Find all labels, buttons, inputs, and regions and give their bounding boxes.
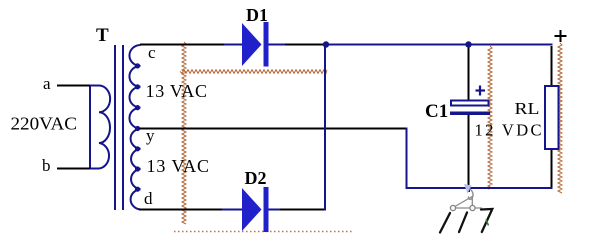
svg-text:13 VAC: 13 VAC — [147, 156, 210, 176]
svg-text:D2: D2 — [245, 168, 267, 188]
svg-text:220VAC: 220VAC — [11, 114, 78, 134]
svg-text:D1: D1 — [246, 5, 268, 25]
svg-text:RL: RL — [515, 99, 540, 118]
svg-text:b: b — [42, 156, 51, 175]
svg-text:c: c — [148, 43, 156, 62]
svg-text:a: a — [43, 74, 51, 93]
svg-text:13 VAC: 13 VAC — [146, 81, 208, 101]
svg-text:C1: C1 — [425, 101, 448, 122]
svg-text:y: y — [146, 126, 155, 145]
svg-text:T: T — [96, 25, 109, 46]
svg-text:d: d — [144, 189, 153, 208]
svg-text:12 VDC: 12 VDC — [475, 121, 542, 140]
